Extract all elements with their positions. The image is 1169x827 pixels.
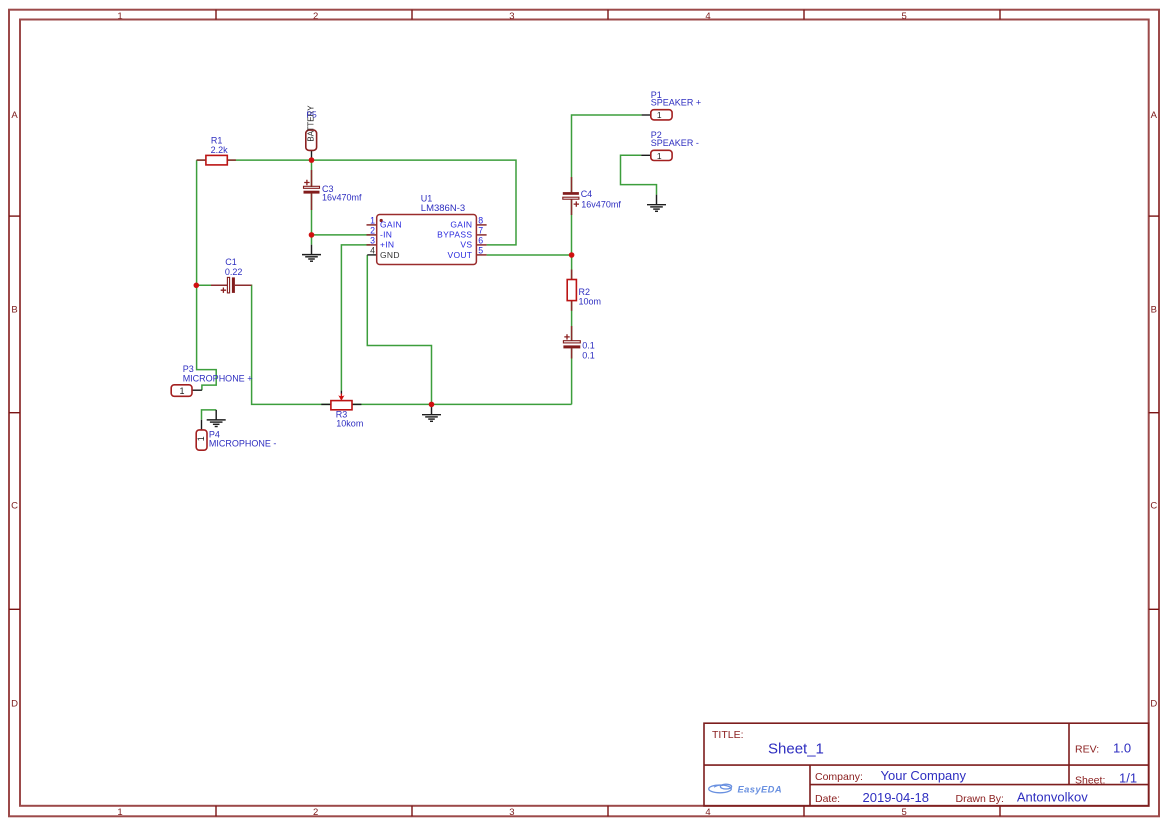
wire C1 row and bottom horizontal to R3 and 0.1 cap [196,284,226,286]
svg-text:0.1: 0.1 [582,341,595,351]
svg-text:6: 6 [478,235,483,245]
capacitor C3 [304,170,363,210]
svg-text:5: 5 [902,11,907,22]
svg-text:1.0: 1.0 [1113,741,1131,756]
node junction C3 bottom [309,232,315,238]
svg-text:3: 3 [509,807,514,818]
EasyEDA logo [709,784,732,793]
capacitor C4 [563,177,622,215]
svg-text:1/1: 1/1 [1119,771,1137,786]
svg-text:10om: 10om [579,297,602,307]
svg-text:2.2k: 2.2k [211,145,229,155]
wire P1 to C4 [572,115,642,192]
svg-text:A: A [11,110,18,121]
wire C3 to ground junction [311,193,313,244]
connector P2 [641,130,699,161]
capacitor C1 [211,257,252,293]
svg-text:P3: P3 [183,364,194,374]
wire pin3 +IN to R3 wiper [341,245,370,391]
svg-text:C1: C1 [225,257,237,267]
svg-text:4: 4 [705,807,710,818]
ground at pin4 net [422,404,441,421]
svg-text:GND: GND [380,250,400,260]
svg-text:B: B [1151,305,1157,316]
connector P1 [642,90,701,120]
svg-text:LM386N-3: LM386N-3 [421,203,465,214]
svg-text:1: 1 [117,11,122,22]
resistor R1 [197,136,236,165]
svg-text:Sheet_1: Sheet_1 [768,741,824,758]
title block [704,723,1149,806]
potentiometer R3 [321,391,363,429]
svg-text:MICROPHONE -: MICROPHONE - [209,438,277,448]
svg-text:16v470mf: 16v470mf [322,192,362,202]
battery P5 [306,105,317,160]
svg-text:3: 3 [509,11,514,22]
svg-text:7: 7 [478,225,483,235]
capacitor 0.1 [563,326,594,361]
svg-text:4: 4 [705,11,710,22]
svg-text:BYPASS: BYPASS [437,230,472,240]
ground under C3 [302,245,321,262]
svg-text:MICROPHONE +: MICROPHONE + [183,374,253,384]
connector P4 [196,420,276,450]
svg-text:Drawn By:: Drawn By: [956,793,1004,805]
wire pin5 VOUT to R2/C4 node [487,254,572,256]
node junction R3 right / ground [429,402,435,408]
node junction battery/V+ [309,157,315,163]
svg-text:2: 2 [313,11,318,22]
svg-text:R1: R1 [211,136,223,146]
svg-text:EasyEDA: EasyEDA [738,783,783,794]
svg-text:D: D [1150,699,1157,710]
wire pin4 GND to ground junction [367,255,431,405]
wire pin2 -IN [312,234,371,236]
ground near P2 [647,195,666,212]
svg-text:B: B [11,305,17,316]
ground near P4 [207,410,226,427]
wire P2 to ground [621,155,657,194]
svg-text:TITLE:: TITLE: [712,729,744,741]
svg-text:2: 2 [313,807,318,818]
svg-text:3: 3 [370,235,375,245]
svg-text:5: 5 [478,246,483,256]
svg-text:4: 4 [370,246,375,256]
svg-text:8: 8 [478,215,483,225]
node junction C1 left [194,283,200,289]
svg-text:1: 1 [117,807,122,818]
svg-text:C: C [11,501,18,512]
svg-text:Date:: Date: [815,793,840,805]
svg-text:2: 2 [370,225,375,235]
svg-text:+IN: +IN [380,240,394,250]
svg-text:REV:: REV: [1075,744,1099,756]
svg-text:C4: C4 [581,189,593,199]
node junction VOUT [569,252,575,258]
wire R2 to 0.1 cap chain [571,255,573,280]
svg-text:1: 1 [196,436,206,441]
connector P3 [171,364,252,397]
svg-text:SPEAKER +: SPEAKER + [651,98,701,108]
svg-text:2019-04-18: 2019-04-18 [863,790,930,805]
wire battery to C3 [311,160,313,187]
svg-text:SPEAKER -: SPEAKER - [651,138,699,148]
wire left vertical from R1 to P3 [197,160,217,390]
svg-text:C: C [1150,501,1157,512]
svg-text:Your Company: Your Company [881,768,967,783]
resistor R2 [567,270,601,311]
svg-text:Antonvolkov: Antonvolkov [1017,790,1088,805]
svg-text:10kom: 10kom [336,419,363,429]
svg-text:P5: P5 [306,110,317,120]
svg-text:1: 1 [370,215,375,225]
svg-text:16v470mf: 16v470mf [581,200,621,210]
svg-text:GAIN: GAIN [450,220,472,230]
svg-text:A: A [1151,110,1158,121]
svg-text:D: D [11,699,18,710]
wire P4 to ground [202,410,217,420]
svg-text:1: 1 [657,151,662,161]
svg-text:1: 1 [179,386,184,396]
wire V+ rail from R1 to VS pin6 [197,160,516,245]
svg-text:VOUT: VOUT [447,250,472,260]
svg-text:Sheet:: Sheet: [1075,774,1105,786]
svg-text:R2: R2 [579,287,591,297]
svg-text:-IN: -IN [380,230,392,240]
svg-text:1: 1 [657,110,662,120]
svg-text:GAIN: GAIN [380,220,402,230]
svg-text:0.1: 0.1 [582,351,595,361]
svg-text:5: 5 [902,807,907,818]
svg-text:Company:: Company: [815,771,863,783]
svg-text:VS: VS [460,240,472,250]
svg-text:0.22: 0.22 [225,267,243,277]
IC U1 LM386N-3 [367,194,487,265]
